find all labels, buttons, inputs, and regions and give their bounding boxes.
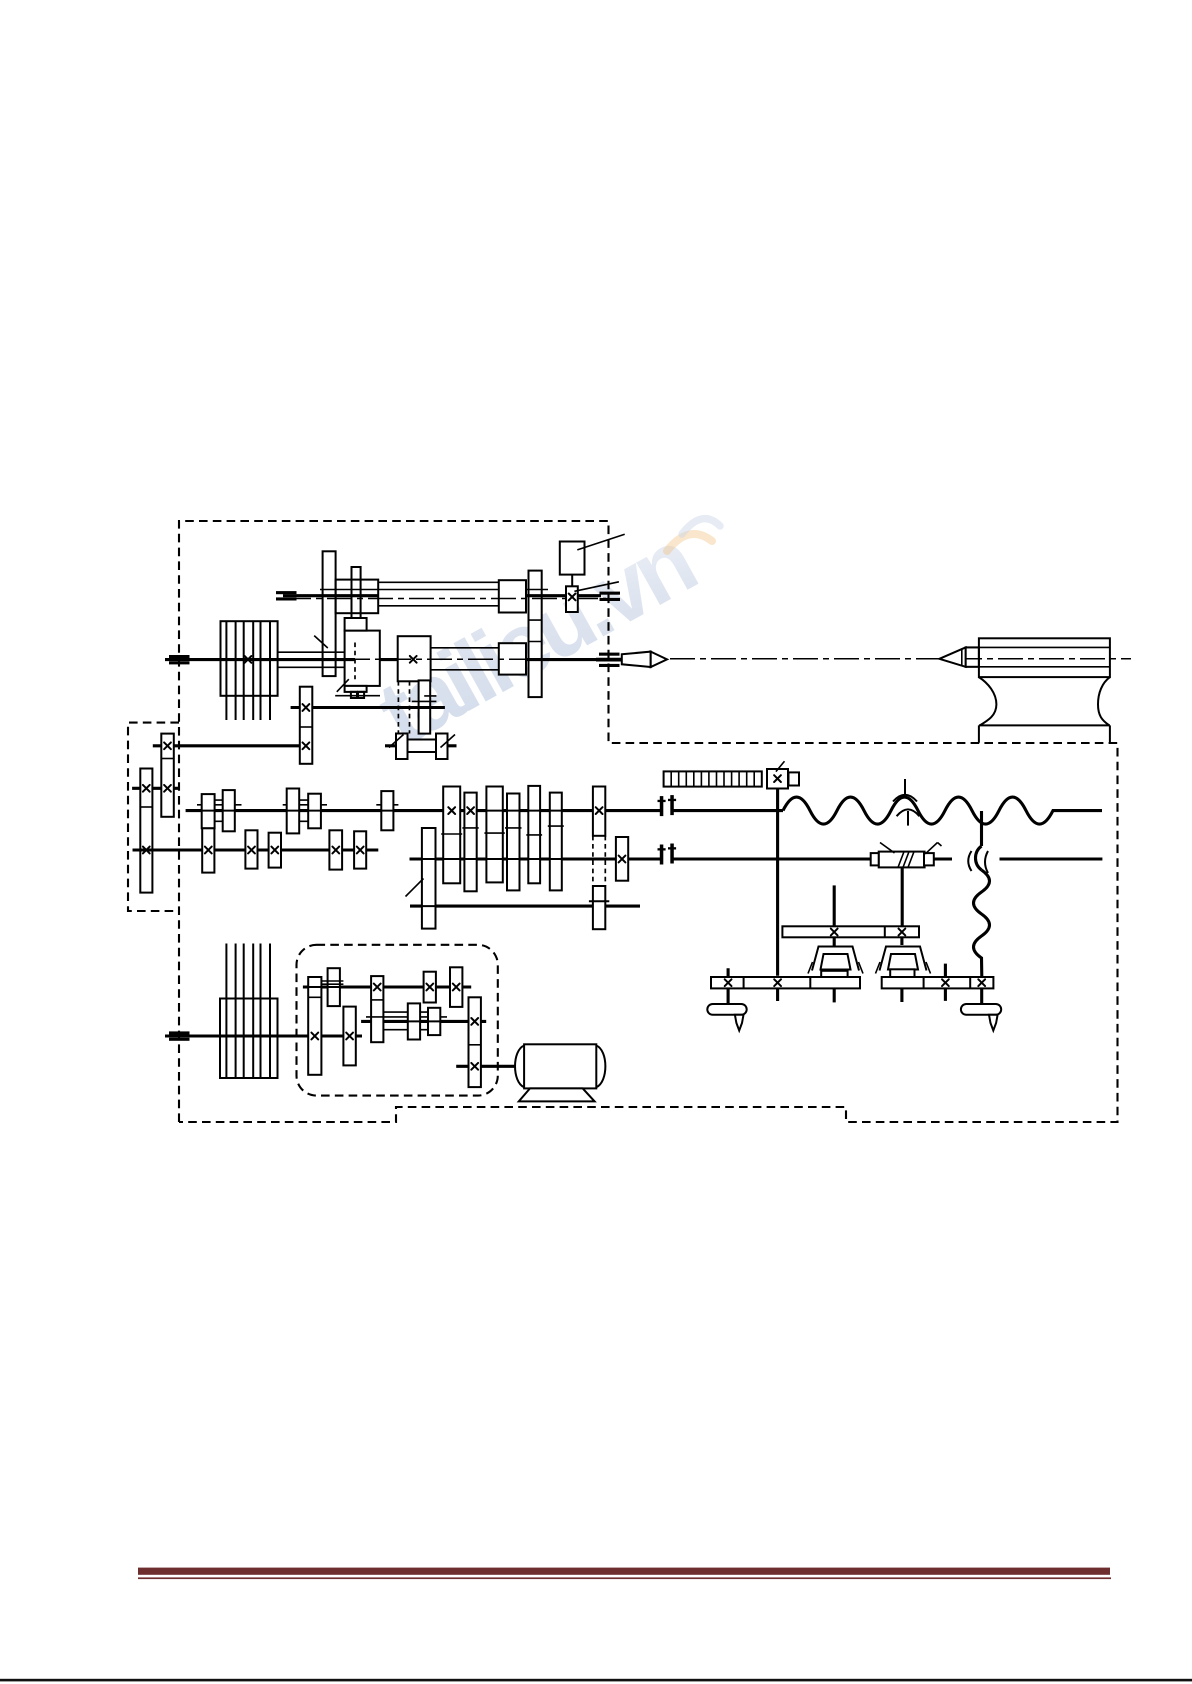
gear G3b on top shaft [450,967,462,1007]
tick GC shaft I [284,810,303,812]
apron bar left [711,977,860,988]
x pulley fixed on spindle [245,656,252,663]
spindle gear (wide) [398,636,431,681]
x B2 upper [164,742,171,749]
spindle centerline dash-dot [222,658,596,660]
bevel T1 pedestal [821,971,847,977]
friction cone right stub [448,744,457,747]
reduction gearbox rounded dashed box [297,945,498,1096]
GL shift slash [406,879,424,897]
change-gear dashed box [128,723,179,911]
flexible shaft wavy vertical [974,870,990,977]
friction slash right [441,735,456,748]
x worm wheel left [831,929,838,936]
x C1 lower [303,742,310,749]
x S4 [332,847,339,854]
sliding sleeve line a [197,804,242,806]
worm slash left [880,843,895,854]
x B2 lower [164,785,171,792]
bearing right of upper shaft [600,592,621,601]
clutch ticks [412,696,437,702]
rack bar [664,771,762,786]
bed centerline dash-dot [670,658,1131,660]
left bar divisions [744,977,811,988]
gearbox middle shaft [361,1020,486,1023]
sleeve left block on upper shaft [336,580,379,614]
vertical bar to bevel T1 [833,937,836,946]
gear S1 on IIa [202,828,214,872]
tick N2 IIb [460,858,480,860]
R dashed sliding section [593,836,605,886]
x B1 lower [143,847,150,854]
sliding cluster R top [593,787,605,836]
pulley belt lines (bottom) [226,944,270,1079]
gear T2 on countershaft [343,1007,355,1066]
pinion side block [789,772,800,785]
quill lines [966,647,1110,666]
machine dashed outline [128,521,1118,1122]
B2 division [161,758,174,760]
shaft segment clutch-gear [380,658,398,661]
bevel T2 pedestal [890,969,914,978]
friction cone right [436,734,448,760]
upper shaft spline line [320,589,548,591]
x B1 upper [143,785,150,792]
step pulley (top) frame [221,621,278,696]
tailstock quill body [979,638,1110,677]
bracket tooth 1 [351,692,357,698]
middle sleeve upper thin line [366,1016,447,1018]
pin v5 [944,964,947,1001]
rack teeth [671,771,754,786]
clutch lower bracket [345,686,367,692]
gear GL on shaft III [422,828,436,929]
shaft y746 [153,744,300,747]
base sides [979,725,1110,742]
flexible shaft S-curve [976,846,982,870]
x apron left bar 2 [774,979,781,986]
handle drop left [735,1015,744,1031]
gear G0 [328,968,340,1006]
bevel T2 side ticks [876,962,931,974]
back plate (tall thin, left) [323,551,336,676]
cluster T1 (tall left) [308,977,321,1075]
tick N4 IIb [503,858,524,860]
tick G0 top shaft [324,986,344,988]
gear GE [381,791,393,830]
step pulley (bottom) frame [220,999,278,1079]
tick GL shaft IIb [418,858,440,860]
x T2 [346,1033,353,1040]
wall plate division lines [529,620,542,641]
vertical drop from feed shaft [980,811,983,846]
x S2 [248,847,255,854]
spindle nose point [651,652,667,667]
gear GB [223,790,235,831]
body waist right [1098,677,1110,725]
x R shaft I [596,807,603,814]
x apron left bar 1 [725,979,732,986]
x G67 middle shaft [471,1018,478,1025]
change gear B2 [161,734,174,817]
motor base [519,1088,595,1101]
cluster G67 (right tall) [469,997,481,1087]
N6 division [548,825,564,827]
shaft III [410,905,640,908]
bracket line [335,695,380,697]
cone chord [961,649,963,665]
cluster G2 [371,976,383,1042]
spindle right segment [526,658,601,661]
tick G5 middle shaft [424,1020,444,1022]
bevel T1 side ticks [808,962,863,974]
bearing lower countershaft [169,1031,190,1040]
bevel T1 inner [821,954,851,970]
sliding sleeve line b [283,804,327,806]
x N2 shaft I [467,807,474,814]
motor left cap arc [515,1046,524,1088]
FOOTER [0,1568,1192,1682]
x apron right bar 1 [942,979,949,986]
C1 division [300,726,313,728]
crossing hop arc right [985,851,988,873]
tick N5 shaft I [524,810,544,812]
break hood lower [897,809,920,816]
motor right cap arc [596,1046,605,1088]
bevel gear T1 outer [812,947,859,971]
tick R shaft III [589,900,609,902]
centre sleeve [966,647,979,666]
x G3b [453,984,460,991]
sliding sleeve line c [376,804,398,806]
break hood upper [893,795,917,802]
gear GR on IIb [616,837,628,881]
bracket tooth 2 [358,692,364,698]
pulley tick line [220,1034,278,1037]
tick GA shaft I [199,810,218,812]
watermark tailieu.vn [362,512,720,766]
GC-GD links [299,800,308,821]
shaft IIa [133,848,379,851]
gear cluster C1 [300,687,313,764]
coupling shaft I [658,795,677,816]
gear GD [308,794,321,829]
gear G5 [428,1008,440,1035]
N1 division [441,833,462,835]
x spindle gear [410,656,417,663]
x T1 countershaft [311,1033,318,1040]
friction slash left [389,735,404,748]
wavy feed shaft [783,797,1102,824]
vertical clutch bar under spindle gear [419,680,431,733]
pin v3 below bar [833,988,836,1002]
clutch body on spindle [345,631,380,686]
gear S5 on IIa [354,831,366,868]
gear GC [287,789,300,834]
countershaft (pulley) lower [165,1034,362,1037]
pinion box [767,769,788,789]
pin v6 below bar [980,988,983,1003]
right bar divisions [924,977,971,988]
control box above shaft [560,542,585,575]
shifter plate (thin, above clutch) [352,567,361,625]
x C1 upper [303,704,310,711]
cluster R bottom [593,886,605,929]
G67 division [469,1044,481,1046]
gear G3a on top shaft [424,972,436,1003]
spindle sleeve lines right [431,648,499,670]
spindle nose trapezoid [622,652,651,667]
footer maroon rule thick [138,1568,1110,1575]
clutch inner dashed line [354,643,356,680]
friction link bar [408,740,437,753]
body waist left [979,677,997,725]
spindle sleeve right block [499,643,526,674]
tick GB shaft I [220,810,238,812]
x pinion [774,775,781,782]
N3 division [484,832,504,834]
T1-G0 sleeve links [321,981,343,984]
x worm wheel right [899,929,906,936]
pinion vertical shaft [776,789,779,1002]
footer maroon rule thin [138,1577,1111,1579]
tick N4 shaft I [503,810,524,812]
shift slash upper [314,636,328,648]
crossing hop arc left [968,851,971,871]
B1 division [140,806,152,808]
handle drop right [989,1015,998,1031]
page bottom black line [0,1679,1192,1682]
leader line 1 [577,534,624,550]
gear S4 on IIa [329,830,342,869]
N5 division [526,834,542,836]
gear on upper shaft right end [566,586,578,612]
norton gear N4 [507,794,520,891]
gear G4 [408,1003,420,1039]
clutch top block [345,618,367,631]
pulley belt lines [226,621,270,720]
shaft I [186,809,783,812]
vertical bar to bevel T2 [900,937,903,945]
bearing right of spindle [599,653,620,656]
sleeve right block on upper shaft [499,580,526,612]
sleeve on upper shaft (double line) [378,582,499,606]
x G67 motor shaft [471,1063,478,1070]
motor shaft [456,1065,515,1068]
bearing left of upper shaft [276,591,297,600]
gear S2 on IIa [245,830,257,868]
norton gear N5 [528,786,540,883]
tick N1 IIb [439,858,464,860]
handwheel left [707,1004,746,1015]
change gear B1 [140,769,152,893]
x N1 shaft I [448,807,455,814]
tick GL shaft III [418,905,440,907]
tick N5 IIb [524,858,544,860]
pinion slash [776,761,785,771]
GA-GB links [215,800,223,821]
norton gear N6 [550,793,562,891]
gear S3 on IIa [269,833,281,868]
tick N3 shaft I [482,810,506,812]
spindle shaft left segment [165,658,355,661]
worm hatch [898,852,914,868]
shift slash lower [337,679,349,692]
tailstock centre cone [939,647,965,666]
tick GD shaft I [305,810,324,812]
x gear fixed [569,594,576,601]
leader line 2 [574,582,619,592]
x G2 top shaft [374,984,381,991]
tick N3 IIb [482,858,506,860]
apron bar right [882,977,994,988]
tick N6 shaft I [546,810,566,812]
upper shaft centerline dash-dot [286,598,606,600]
x S1 [205,847,212,854]
bearing left of spindle (on boundary) [169,655,190,664]
N2 division [462,827,478,829]
bevel gear T2 outer [880,947,927,971]
worm on feed rod [879,852,925,868]
shaft IIb [410,857,1103,860]
motor body [524,1044,596,1088]
pin v4 below bar [900,988,903,1002]
x S3 [271,847,278,854]
vertical above bar [833,885,836,926]
link box to gear [571,575,573,587]
gear GA top [202,794,215,828]
x G3a [426,984,433,991]
shifter dashed links [398,681,409,734]
coupling shaft IIb [658,844,677,865]
norton gear N2 [464,793,476,892]
break symbol vertical top [904,779,906,795]
tick GE shaft I [378,810,396,812]
norton gear N3 [486,787,502,883]
spindle nose bearing heavy [596,658,621,662]
friction cone left [396,734,408,760]
x S5 [357,847,364,854]
shaft stub y788 [132,787,179,790]
bearing wall plate (tall, between shafts) [529,571,542,698]
worm cap right [924,853,934,865]
bevel T2 inner [888,954,918,970]
middle sleeve lines [383,1012,429,1030]
T1 division [308,996,321,998]
quill lines pulley to clutch [278,652,345,667]
pin v1 [727,968,730,1004]
shaft IIa left end [133,848,185,851]
friction cone left stub [385,744,396,747]
handwheel right [961,1004,1001,1015]
shaft y707 [291,706,445,709]
G2 division [371,999,383,1001]
tick N6 IIb [546,858,566,860]
break symbol vertical bottom [907,811,909,826]
bar division [884,926,886,937]
body bottom [979,724,1110,726]
worm cap left [871,853,879,865]
worm slash right with flag [925,843,941,854]
norton gear N1 [443,787,460,884]
headstock dashed box top [179,521,1118,1122]
tick G4 middle shaft [404,1020,424,1022]
tick T1 top shaft [304,986,325,988]
gearbox top shaft [303,985,471,988]
worm output vertical [901,867,904,926]
worm wheel bar [782,926,919,937]
N4 division [505,827,522,829]
x apron right bar 2 [978,979,985,986]
upper shaft I0 solid line [283,594,601,597]
x GR [619,856,626,863]
